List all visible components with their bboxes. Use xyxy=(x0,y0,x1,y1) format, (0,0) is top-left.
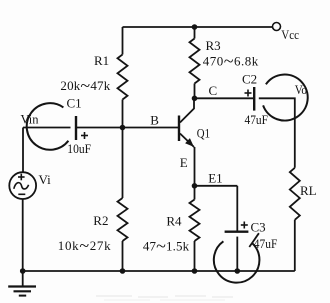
annotation circle C3 tail stroke xyxy=(249,233,259,247)
node E1 dot xyxy=(192,183,198,189)
transistor Q1 emitter diagonal xyxy=(180,134,194,148)
source Vi minus sign xyxy=(18,193,25,195)
resistor R4 xyxy=(190,200,200,242)
transistor Q1 emitter arrowhead xyxy=(185,138,194,147)
svg-text:R2: R2 xyxy=(93,213,108,228)
svg-text:Vi: Vi xyxy=(39,172,52,187)
wire R2 bottom to ground bus xyxy=(122,241,124,271)
wire C3 top stub xyxy=(236,186,238,231)
node C dot xyxy=(192,96,198,102)
wire Vin input to C1 xyxy=(23,127,71,129)
wire C1 to base node B xyxy=(76,127,179,129)
node dot R4 bottom xyxy=(192,268,198,274)
capacitor C1 plus sign xyxy=(81,135,88,137)
annotation circle around C1 xyxy=(27,103,69,150)
svg-text:R1: R1 xyxy=(94,53,109,68)
node dot C3 bottom xyxy=(235,268,241,274)
wire R1 top stub xyxy=(122,27,124,55)
wire R3 bottom stub to node C xyxy=(194,84,196,99)
capacitor C3 plus sign xyxy=(241,224,248,226)
svg-text:Vin: Vin xyxy=(21,113,40,127)
svg-text:E: E xyxy=(180,155,188,170)
svg-text:C3: C3 xyxy=(251,220,266,235)
terminal Vcc xyxy=(273,23,281,31)
svg-text:20k~47k: 20k~47k xyxy=(60,76,110,96)
transistor Q1 base bar xyxy=(178,116,180,142)
wire Vi to ground bus xyxy=(22,199,24,271)
wire node E1 to C3 branch xyxy=(195,185,238,187)
resistor R1 xyxy=(118,55,128,100)
source Vi plus sign xyxy=(18,176,25,178)
svg-text:C1: C1 xyxy=(67,96,82,111)
wire RL bottom to ground bus xyxy=(294,220,296,271)
resistor R3 xyxy=(190,39,200,84)
annotation circle around C2 and Vo xyxy=(263,75,308,121)
node B dot xyxy=(120,125,126,131)
svg-text:47~1.5k: 47~1.5k xyxy=(143,236,190,256)
capacitor C2 plus sign xyxy=(245,92,252,94)
wire bottom ground bus xyxy=(23,270,295,272)
resistor R2 xyxy=(118,198,128,241)
node dot ground left xyxy=(20,268,26,274)
transistor Q1 collector diagonal xyxy=(180,98,194,122)
annotation circle around C3 xyxy=(214,241,260,282)
svg-text:47uF: 47uF xyxy=(245,112,269,127)
source Vi sine wave xyxy=(14,183,29,189)
svg-text:47uF: 47uF xyxy=(254,236,277,251)
wire top bus Vcc rail xyxy=(123,26,273,28)
wire emitter down to node E1 xyxy=(194,147,196,186)
svg-text:RL: RL xyxy=(300,183,317,198)
svg-text:R4: R4 xyxy=(166,214,182,229)
wire R3 top stub xyxy=(194,27,196,39)
ground symbol stub xyxy=(22,271,24,286)
svg-text:470~6.8k: 470~6.8k xyxy=(203,51,259,71)
node dot top bus R3 xyxy=(192,24,198,30)
source Vi circle xyxy=(9,172,36,199)
wire Vin down to source Vi xyxy=(22,128,24,173)
svg-text:Vo: Vo xyxy=(295,82,307,97)
capacitor C1 plate xyxy=(75,116,77,140)
ground symbol bars xyxy=(8,285,36,287)
svg-text:C: C xyxy=(209,83,218,98)
capacitor C3 plate xyxy=(225,230,249,232)
resistor RL xyxy=(290,168,300,220)
svg-text:10k~27k: 10k~27k xyxy=(58,235,111,255)
svg-text:R3: R3 xyxy=(206,38,221,53)
wire R1 bottom stub to node B xyxy=(122,100,124,128)
node dot R2 bottom xyxy=(120,268,126,274)
svg-text:Q1: Q1 xyxy=(197,126,210,140)
svg-text:10uF: 10uF xyxy=(67,141,91,156)
wire C3 bottom to ground bus xyxy=(236,237,238,271)
svg-text:C2: C2 xyxy=(242,72,257,87)
wire R4 bottom to ground bus xyxy=(194,241,196,271)
faint cropped caption remnants at bottom xyxy=(96,296,233,300)
wire node C to C2 xyxy=(195,97,254,99)
svg-text:B: B xyxy=(150,113,159,128)
svg-text:E1: E1 xyxy=(208,170,222,185)
svg-text:Vcc: Vcc xyxy=(281,27,299,42)
wire node B down to R2 xyxy=(122,128,124,199)
wire node E1 down to R4 xyxy=(194,186,196,200)
wire C2 to output corner Vo xyxy=(259,98,295,168)
capacitor C2 plate xyxy=(253,87,255,111)
